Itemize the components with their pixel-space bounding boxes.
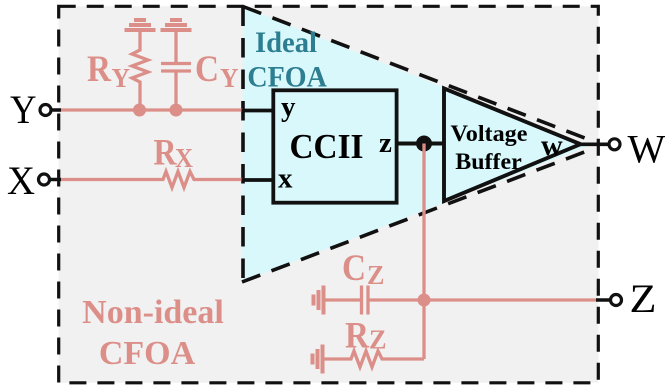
svg-text:W: W [628,127,665,172]
wire z node down to CZ/RZ [422,144,425,360]
label CCII [290,127,364,166]
wire CY branch vertical lower [174,71,177,110]
wire RY branch vertical lower [138,86,141,110]
ground for CZ [314,286,324,315]
svg-text:X: X [7,158,35,203]
pin label y [281,91,296,123]
pin label w [541,129,563,162]
wire z to buffer [396,142,445,146]
node z junction [416,136,432,152]
resistor RX [159,172,199,188]
label CY [195,49,239,93]
ideal region dashed outline bottom diagonal [242,148,595,282]
non-ideal CFOA boundary box [59,6,599,383]
CCII block U1 [273,90,396,202]
svg-text:R: R [87,49,112,90]
node junction CY on Y wire [170,104,183,117]
wire ground to CZ [324,298,362,301]
resistor RY [132,47,148,86]
svg-text:CFOA: CFOA [247,60,327,93]
wire y port (black) [242,109,274,113]
capacitor CY [161,64,191,72]
wire node to Z terminal [424,298,597,301]
label Ideal CFOA [247,26,327,93]
svg-text:Y: Y [112,63,131,93]
svg-text:C: C [342,248,366,289]
terminal Y stub [50,108,61,112]
terminal Z circle [611,295,622,306]
svg-text:x: x [278,163,293,195]
ideal region dashed outline top diagonal [243,7,595,143]
svg-text:Non-ideal: Non-ideal [82,294,224,331]
ideal region dashed outline left edge [241,7,245,283]
label Non-ideal CFOA [82,294,224,372]
label Y [10,87,37,132]
svg-text:w: w [541,129,563,162]
wire ground to RZ [323,357,348,360]
label RZ [345,316,387,357]
wire buffer tip to W terminal [578,143,608,147]
terminal X stub [48,178,61,182]
terminal Y circle [40,105,51,116]
wire CY to supply [174,30,177,64]
svg-text:CCII: CCII [290,127,364,166]
wire x port (black) [242,178,274,182]
svg-text:Voltage: Voltage [451,121,528,147]
terminal X circle [39,174,50,185]
svg-text:C: C [195,49,219,90]
svg-text:CFOA: CFOA [99,335,196,372]
label X [7,158,35,203]
svg-text:Buffer: Buffer [455,149,522,175]
svg-text:Z: Z [367,260,385,290]
svg-text:R: R [154,133,178,174]
label CZ [342,248,385,290]
svg-text:Y: Y [10,87,37,132]
label RY [87,49,130,93]
ideal CFOA region (cyan triangle) [242,7,588,283]
wire RZ to vertical [387,357,424,360]
node junction RY on Y wire [133,104,146,117]
terminal W circle [609,139,620,150]
node junction CZ [418,294,431,307]
wire RX to ideal region [199,178,243,181]
label Z [630,276,657,321]
voltage buffer U2 [444,88,581,201]
svg-text:Ideal: Ideal [255,26,317,59]
terminal Z stub [596,298,610,302]
svg-text:Z: Z [630,276,657,321]
label Voltage Buffer [451,121,528,175]
supply symbol above CY [161,20,192,30]
capacitor CZ [362,286,369,315]
resistor RZ [347,351,387,367]
label RX [154,133,194,174]
svg-text:y: y [281,91,296,123]
svg-text:Y: Y [220,63,239,93]
wire CZ to node [368,298,424,301]
wire RY to supply [138,30,141,47]
wire X terminal to RX [55,178,159,181]
svg-text:X: X [175,143,193,173]
pin label x [278,163,293,195]
pin label z [379,127,392,159]
svg-text:Z: Z [369,325,387,355]
wire Y terminal to ideal region [55,108,243,111]
label W [628,127,665,172]
supply symbol above RY [125,20,156,30]
ground for RZ [313,345,323,374]
svg-text:z: z [379,127,392,159]
svg-text:R: R [345,316,370,357]
